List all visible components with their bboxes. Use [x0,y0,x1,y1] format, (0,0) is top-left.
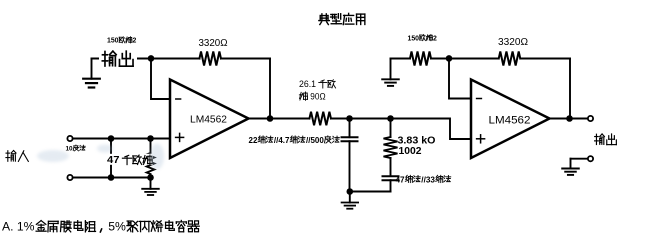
note A. 1%金属膜电阻，5%聚丙烯电容器 [2,220,126,234]
node: U1 output junction [267,115,274,122]
wire: node1 to node2 [350,118,391,120]
svg-text://33: //33 [421,175,435,184]
op-amp U1 LM4562 [170,80,249,159]
op-amp U2 LM4562 [471,80,550,159]
label 150欧姆2 (left) [119,37,132,43]
wire: ground terminal to G4 [571,159,588,169]
wire: U2 output to terminal [550,118,588,120]
ground G3 (right feedback) [382,59,399,86]
node: minus node junction [148,55,155,62]
ground G1 (left feedback) [83,59,100,88]
svg-text://500: //500 [306,136,324,145]
capacitor C2 (47n//33n) [383,176,399,191]
U1 minus sign [176,98,181,100]
title 典型应用 [319,13,365,24]
label 22纳法//4.7纳法//500皮法 [249,136,325,145]
node: U2 output junction [566,115,573,122]
svg-text:26.1: 26.1 [299,79,316,89]
svg-text:LM4562: LM4562 [489,115,531,127]
ground G4 (output) [562,169,579,175]
capacitor 10pF vertical (x=111) [110,139,112,178]
svg-text:A. 1%: A. 1% [2,220,35,234]
svg-text:3320Ω: 3320Ω [199,38,228,49]
output terminal [588,116,593,121]
resistor R1 47k vertical (x=150.5) [147,139,155,178]
svg-text:3320Ω: 3320Ω [498,36,528,48]
node: bottom rail at 10pF [108,174,115,181]
label 26.1 千欧 / 姆 90Ω [299,79,326,101]
svg-text:LM4562: LM4562 [190,114,227,126]
resistor R6 3320 ohm (stage2 feedback) [449,52,570,66]
wire: feedback down to U2 output [569,59,571,119]
decorative smudges [37,144,164,170]
svg-text:2: 2 [433,35,437,42]
U2 label LM4562 [489,115,531,127]
capacitor C1 (22n//4.7n//500p) [342,119,358,192]
wire: top input rail to U1 plus input [73,138,170,140]
label 47 千欧姆 [106,154,154,165]
ground G2 (filter) [342,192,359,209]
svg-text:1002: 1002 [399,145,422,157]
label 150欧姆2 (right) [420,34,433,40]
resistor R4 3.83k vertical [384,119,398,177]
label 3320Ω (left) [199,38,228,49]
label 输出 (right) [595,134,617,145]
wire: node2 to U2 plus input [391,119,472,140]
svg-text://4.7: //4.7 [274,136,290,145]
wire: feedback down to output node [269,59,271,119]
node: bottom of C1 [347,188,354,195]
resistor R2 3320 ohm (stage1 feedback) [151,52,270,66]
wire: bottom input rail [73,177,150,179]
wire: minus node down and into U1 inverting input [151,59,170,100]
svg-text:150: 150 [107,38,119,45]
svg-text:10: 10 [66,145,74,152]
svg-text:90Ω: 90Ω [310,91,326,101]
label 3320Ω (right) [498,36,528,48]
U1 label LM4562 [190,114,227,126]
label 10皮法 [66,145,74,152]
output ground terminal [588,156,593,161]
label 3.83 kO / 1002 [398,135,436,158]
U1 plus sign [176,133,184,141]
wire: minus node down into U2 inverting input [449,59,471,99]
label 47纳法//33纳法 [396,175,436,184]
svg-text:5%: 5% [108,220,126,234]
ground G5 (input) [142,178,159,196]
U2 minus sign [477,98,482,100]
label 输出 (overprinted, top-left) [99,50,137,68]
node: filter node 2 [387,115,394,122]
wire: U1 output to node [249,118,271,120]
node: filter node 1 [346,115,353,122]
node: U2 minus node [446,55,453,62]
wire: bottom rail C1 to C2 [350,191,391,193]
wire: ground to minus node (hidden 150 ohm) [92,58,152,60]
resistor R5 150 ohm [391,52,450,66]
svg-text:47: 47 [396,175,406,184]
svg-text:22: 22 [249,136,258,145]
svg-text:47: 47 [107,154,120,166]
U2 plus sign [477,135,485,143]
svg-text:2: 2 [133,38,137,45]
input terminal bottom [67,175,72,180]
node: bottom rail at 47k [147,174,154,181]
resistor R3 26.1k [270,112,350,126]
node: top rail at 47k [147,135,154,142]
label 输入 [6,150,28,161]
node: top rail at 10pF [108,135,115,142]
input terminal top [67,136,72,141]
svg-text:150: 150 [408,35,420,42]
